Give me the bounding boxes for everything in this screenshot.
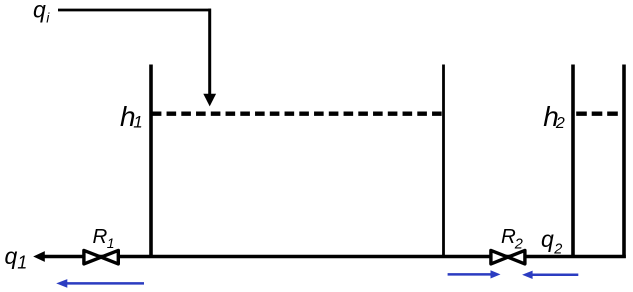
svg-text:2: 2 — [553, 241, 562, 257]
svg-text:2: 2 — [555, 115, 565, 132]
svg-text:q: q — [33, 0, 46, 22]
svg-text:1: 1 — [133, 113, 142, 132]
svg-text:q: q — [541, 226, 554, 252]
svg-text:q: q — [5, 243, 18, 269]
svg-text:1: 1 — [107, 235, 115, 251]
svg-text:i: i — [46, 9, 50, 25]
svg-text:1: 1 — [17, 252, 27, 272]
svg-text:R: R — [501, 225, 516, 248]
svg-text:R: R — [93, 225, 108, 248]
svg-text:2: 2 — [514, 236, 523, 252]
